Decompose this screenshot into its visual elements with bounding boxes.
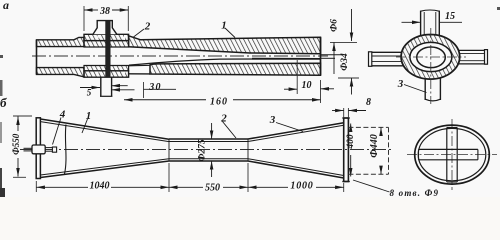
svg-text:15: 15: [445, 11, 455, 22]
svg-text:a: a: [3, 0, 9, 12]
svg-text:1000: 1000: [290, 181, 313, 192]
svg-text:б: б: [0, 95, 7, 110]
svg-text:Ф6: Ф6: [330, 19, 340, 32]
svg-text:2: 2: [220, 113, 227, 125]
svg-text:8 отв. Ф9: 8 отв. Ф9: [390, 188, 440, 197]
svg-text:2: 2: [144, 21, 151, 33]
svg-text:160: 160: [210, 97, 228, 108]
svg-text:30: 30: [148, 82, 161, 93]
svg-text:Ф275: Ф275: [198, 139, 208, 162]
svg-text:1: 1: [86, 110, 92, 122]
svg-text:1040: 1040: [90, 181, 110, 192]
svg-text:10: 10: [302, 80, 312, 91]
svg-text:3: 3: [397, 78, 404, 90]
svg-text:5: 5: [87, 88, 92, 98]
svg-text:3: 3: [269, 114, 276, 126]
svg-text:38: 38: [99, 6, 110, 17]
svg-text:Ф34: Ф34: [340, 53, 350, 71]
svg-text:550: 550: [205, 183, 220, 194]
svg-text:400: 400: [346, 134, 356, 150]
svg-text:1: 1: [221, 20, 227, 32]
svg-text:8: 8: [366, 97, 371, 108]
svg-text:Ф550: Ф550: [11, 133, 21, 155]
svg-text:4: 4: [59, 109, 66, 121]
svg-text:Ф440: Ф440: [369, 134, 380, 158]
